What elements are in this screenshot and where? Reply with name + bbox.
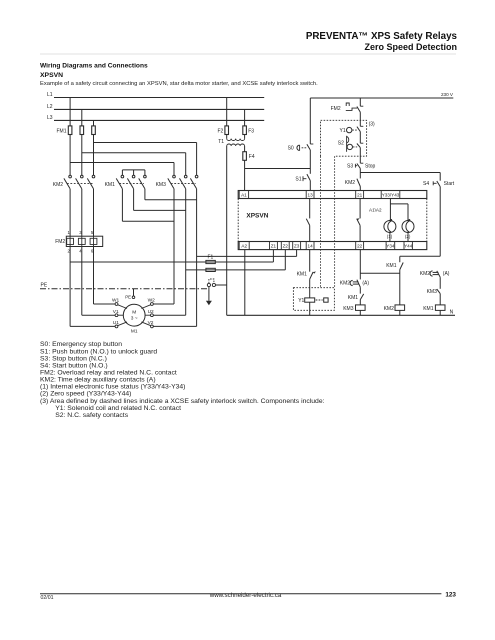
svg-text:Wiring Diagrams and Connection: Wiring Diagrams and Connections: [40, 63, 148, 70]
svg-text:F2: F2: [218, 128, 224, 134]
svg-text:Z1: Z1: [271, 244, 277, 249]
svg-text:KM3: KM3: [427, 289, 438, 295]
svg-text:(A): (A): [443, 271, 450, 277]
svg-text:L1: L1: [47, 92, 53, 98]
svg-text:3 ~: 3 ~: [131, 316, 138, 322]
svg-text:Y34: Y34: [386, 244, 395, 249]
svg-text:21: 21: [357, 193, 363, 198]
svg-text:S3: S3: [347, 163, 353, 169]
svg-text:A1: A1: [241, 193, 247, 198]
svg-text:(3): (3): [369, 122, 375, 128]
svg-text:M: M: [132, 310, 136, 316]
svg-text:PREVENTA™ XPS Safety Relays: PREVENTA™ XPS Safety Relays: [306, 31, 458, 42]
svg-text:U2: U2: [148, 309, 154, 315]
svg-text:(A): (A): [362, 281, 369, 287]
svg-text:S4: Start button (N.O.): S4: Start button (N.O.): [40, 362, 108, 369]
svg-text:Y44: Y44: [404, 244, 413, 249]
svg-text:Z3: Z3: [294, 244, 300, 249]
svg-text:02/01: 02/01: [41, 595, 54, 601]
svg-text:S1: S1: [295, 176, 301, 182]
svg-text:KM1: KM1: [386, 263, 397, 269]
svg-text:22: 22: [357, 244, 363, 249]
svg-text:V2: V2: [148, 320, 154, 326]
svg-text:S2: S2: [338, 140, 344, 146]
svg-text:Zero Speed Detection: Zero Speed Detection: [364, 42, 457, 52]
svg-text:KM2: Time delay auxiliary cont: KM2: Time delay auxiliary contacts (A): [40, 377, 156, 384]
svg-text:KM2: KM2: [340, 281, 351, 287]
svg-text:S0: S0: [288, 146, 294, 152]
svg-text:KM3: KM3: [156, 182, 167, 188]
svg-text:KM1: KM1: [423, 306, 434, 312]
svg-text:U1: U1: [113, 320, 119, 326]
svg-text:Start: Start: [444, 181, 455, 187]
svg-text:FM2: FM2: [55, 239, 65, 245]
svg-text:F4: F4: [249, 154, 255, 160]
svg-text:N: N: [450, 310, 454, 316]
svg-text:KM2: KM2: [345, 180, 356, 186]
svg-text:230 V: 230 V: [441, 92, 454, 97]
svg-text:KM1: KM1: [348, 295, 359, 301]
svg-text:Y1: Y1: [340, 128, 346, 134]
svg-text:KM1: KM1: [105, 182, 116, 188]
svg-text:F3: F3: [248, 128, 254, 134]
svg-text:(3) Area defined by dashed lin: (3) Area defined by dashed lines indicat…: [40, 398, 325, 405]
svg-text:www.schneider-electric.ca: www.schneider-electric.ca: [209, 592, 282, 599]
svg-text:(2) Zero speed (Y33/Y43-Y44): (2) Zero speed (Y33/Y43-Y44): [40, 391, 131, 398]
svg-text:Y33/Y43: Y33/Y43: [382, 193, 400, 198]
svg-text:PE: PE: [41, 283, 48, 289]
svg-text:Y1: Solenoid coil and related: Y1: Solenoid coil and related N.C. conta…: [55, 405, 181, 412]
svg-text:W2: W2: [148, 298, 156, 304]
svg-text:L3: L3: [47, 115, 53, 121]
svg-text:13: 13: [308, 193, 314, 198]
svg-text:FM2: Overload relay and relate: FM2: Overload relay and related N.C. con…: [40, 369, 177, 376]
svg-text:14: 14: [308, 244, 314, 249]
svg-text:F1: F1: [208, 255, 214, 261]
svg-text:W1: W1: [112, 298, 120, 304]
svg-text:S4: S4: [423, 181, 429, 187]
svg-text:XPSVN: XPSVN: [40, 72, 63, 79]
svg-text:XPSVN: XPSVN: [246, 213, 268, 220]
svg-text:Stop: Stop: [365, 163, 376, 169]
svg-text:FM2: FM2: [331, 106, 341, 112]
svg-text:(1) Internal electronic fuse s: (1) Internal electronic fuse status (Y33…: [40, 384, 185, 391]
svg-text:T1: T1: [218, 139, 224, 145]
svg-text:S0: Emergency stop button: S0: Emergency stop button: [40, 341, 122, 348]
svg-text:KM2: KM2: [384, 306, 395, 312]
svg-text:KM2: KM2: [420, 271, 431, 277]
svg-text:A1\A2: A1\A2: [369, 208, 382, 213]
svg-text:M1: M1: [131, 329, 138, 335]
svg-text:KM1: KM1: [297, 271, 308, 277]
svg-text:KM3: KM3: [343, 306, 354, 312]
svg-text:PE: PE: [125, 295, 131, 300]
svg-text:KM2: KM2: [53, 182, 64, 188]
svg-text:Y1: Y1: [298, 298, 304, 304]
svg-text:Z2: Z2: [283, 244, 289, 249]
svg-text:V1: V1: [113, 309, 119, 315]
svg-text:L2: L2: [47, 104, 53, 110]
svg-text:S2: N.C. safety contacts: S2: N.C. safety contacts: [55, 412, 129, 419]
svg-text:S3: Stop button (N.C.): S3: Stop button (N.C.): [40, 355, 107, 362]
svg-text:FM1: FM1: [57, 128, 67, 134]
svg-text:Example of a safety circuit co: Example of a safety circuit connecting a…: [40, 81, 318, 87]
svg-text:S1: Push button (N.O.) to unlo: S1: Push button (N.O.) to unlock guard: [40, 348, 157, 355]
svg-text:A2: A2: [241, 244, 247, 249]
svg-text:123: 123: [445, 592, 456, 599]
